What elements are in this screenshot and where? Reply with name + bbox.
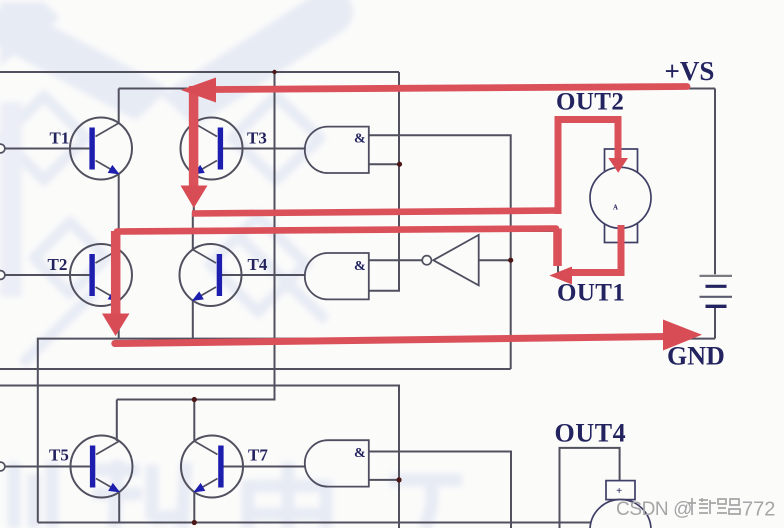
wire: T2 emitter down to GND rail	[118, 300, 120, 338]
red wire: +VS to left arrow	[213, 87, 687, 90]
red wire: GND line	[115, 337, 667, 344]
svg-text:GND: GND	[667, 342, 725, 371]
motor M2	[590, 481, 651, 528]
wire: T5/T7 collector line y399.5	[117, 72, 275, 400]
svg-text:OUT1: OUT1	[557, 280, 625, 307]
wire: in line y385.5 from left edge to x399 then down	[0, 386, 399, 528]
wire: T3 emitter down to OUT2 line	[193, 174, 195, 212]
CSDN watermark CJK glyphs 情报员	[688, 498, 740, 515]
watermark chinese char 4	[390, 480, 462, 528]
wire: T2 base from left port	[5, 274, 89, 276]
watermark logo X top-left	[0, 2, 330, 364]
CSDN watermark	[616, 499, 775, 521]
wire: T3 base to gate1 nose	[223, 148, 306, 150]
wire: logic top line y72 from left edge to x399	[0, 71, 399, 73]
red arrowhead left at top	[181, 78, 216, 103]
red wire: motor bottom to OUT1	[570, 225, 621, 273]
wire: T4 emitter down to GND rail	[192, 300, 194, 338]
red wire: OUT2 line left-right	[192, 211, 559, 214]
red arrowhead left at OUT1	[549, 267, 572, 285]
wire: vertical x399 from top line down to gate2 lower input corner	[369, 72, 399, 291]
wire: +VS rail y88.5 from T1 collector to +VS corner	[119, 88, 715, 90]
svg-text:T1: T1	[50, 129, 70, 148]
wire: OUT2 branch up right	[558, 120, 620, 213]
red wire: OUT1 stub down	[553, 229, 562, 267]
svg-text:T7: T7	[248, 446, 268, 465]
transistor T4	[180, 244, 242, 306]
wire: GND rail y338.6	[38, 339, 715, 523]
watermark chinese char 3	[248, 462, 326, 528]
input port T5	[0, 462, 5, 471]
inverter U4	[422, 235, 479, 286]
svg-text:&: &	[354, 259, 366, 274]
svg-text:CSDN @: CSDN @	[616, 499, 692, 520]
input port T1	[0, 144, 5, 153]
schematic wires	[0, 72, 715, 528]
svg-text:T2: T2	[48, 255, 68, 274]
junction dot top line x274.5	[272, 70, 276, 74]
svg-text:+VS: +VS	[665, 56, 715, 86]
transistor T1	[70, 118, 132, 180]
wire: OUT2 line y212 from T3/T4 to x558 (under red)	[194, 211, 558, 213]
svg-text:OUT4: OUT4	[555, 419, 627, 448]
wire: T5 emitter to bottom rail	[118, 492, 120, 523]
and gate U2 (T4 driver)	[305, 253, 369, 299]
wire: T7 collector vertical	[193, 400, 195, 442]
red wire: down T2	[111, 231, 121, 315]
transistor T3	[181, 118, 243, 180]
svg-text:T4: T4	[248, 255, 268, 274]
wire: gate1 upper input to x510.7 then down to y369	[369, 135, 511, 369]
svg-text:OUT2: OUT2	[556, 89, 624, 116]
junction dot gate1 lower input	[397, 162, 402, 167]
svg-text:T3: T3	[247, 129, 267, 148]
junction dot gate3 lower input	[396, 477, 401, 482]
junction dot inverter input	[508, 258, 513, 263]
wire: T1 base from left port	[5, 148, 89, 150]
red current path annotation	[115, 86, 687, 344]
svg-text:A: A	[613, 204, 618, 211]
red wire: up to OUT2 label	[558, 120, 618, 215]
transistor T5	[71, 436, 133, 498]
wire: bottom rail y522.5	[38, 522, 596, 524]
wire: gate3 upper input right then down	[369, 452, 511, 528]
red arrowhead right at GND	[663, 320, 702, 351]
and gate U1 (T3 driver)	[305, 127, 369, 173]
wire: T7 base to gate3 nose	[224, 466, 306, 468]
motor M1	[590, 149, 651, 243]
wire: T5 collector vertical	[116, 400, 118, 442]
wire: T4 collector vertical	[192, 212, 194, 250]
wire: OUT1 line y231 from T1/T2 to x558 (under red)	[119, 230, 558, 232]
svg-text:&: &	[354, 446, 366, 461]
transistor T7	[181, 436, 243, 498]
svg-text:T5: T5	[49, 446, 69, 465]
junction dot T7 collector	[192, 397, 197, 402]
red wire: down T3	[189, 86, 199, 187]
wire: T1 emitter down to OUT1 line and T2 collector	[118, 174, 120, 250]
wire: T1 collector vertical	[118, 89, 120, 124]
wire: T3 collector vertical up to rail (under red)	[193, 89, 195, 124]
wire: motor1 bottom to OUT1 branch	[558, 229, 620, 273]
wire: in line y369 from left edge to x510.7	[0, 368, 511, 370]
red arrowhead down into motor1	[608, 158, 628, 173]
watermark chinese char 1	[14, 462, 52, 528]
transistor T2	[70, 244, 132, 306]
svg-text:772: 772	[742, 499, 775, 521]
input port T2	[0, 271, 5, 280]
svg-text:&: &	[354, 132, 366, 147]
wire: T7 emitter to bottom rail	[193, 492, 195, 523]
wire: battery bottom to GND rail	[714, 308, 716, 339]
red arrowhead down at T2	[102, 314, 130, 337]
wire: OUT4 branch	[560, 448, 620, 528]
junction dot bottom rail	[192, 520, 197, 525]
wire: +VS corner down to battery top	[714, 89, 716, 275]
red arrowhead down at T3	[181, 186, 208, 209]
wire: gate2 upper input to inverter bubble	[369, 259, 422, 261]
red wire: OUT1 line y230	[117, 229, 556, 232]
wire: T5 base from left port	[5, 466, 90, 468]
wire: gate1 lower input to x399.5	[369, 163, 400, 165]
svg-text:+: +	[616, 485, 622, 497]
and gate U3 (T7 driver)	[305, 440, 369, 486]
wire: T4 base to gate2 nose	[222, 274, 306, 276]
battery B1	[700, 276, 733, 306]
watermark diamond hole	[92, 96, 232, 228]
watermark chinese char 2	[93, 460, 186, 528]
wire: gate3 lower input to x399	[369, 479, 399, 481]
wire: inverter input right to junction x510.7	[479, 259, 511, 261]
